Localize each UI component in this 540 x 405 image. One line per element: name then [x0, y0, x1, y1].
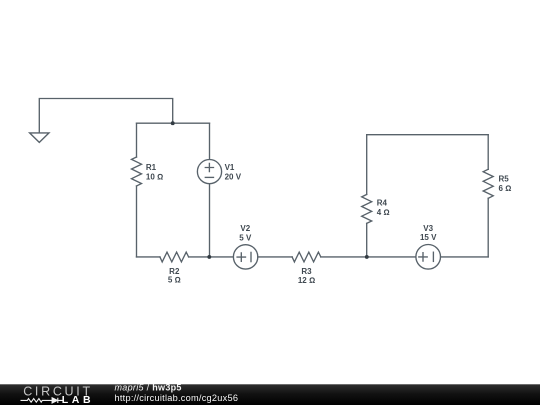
- wire bottom rail R3 to V3: [321, 256, 416, 258]
- svg-text:12 Ω: 12 Ω: [298, 276, 315, 285]
- svg-text:5 Ω: 5 Ω: [168, 276, 181, 285]
- svg-text:R3: R3: [301, 267, 312, 276]
- svg-text:V1: V1: [225, 163, 235, 172]
- wire bottom rail left segment: [137, 256, 160, 258]
- svg-text:LAB: LAB: [62, 394, 94, 405]
- svg-text:V3: V3: [423, 224, 433, 233]
- svg-text:R1: R1: [146, 163, 157, 172]
- wire top rail left loop: [137, 122, 210, 124]
- V2 bar: [250, 252, 252, 261]
- svg-text:6 Ω: 6 Ω: [499, 184, 512, 193]
- resistor R4: [362, 194, 372, 223]
- node junction top left: [171, 121, 175, 125]
- resistor R3: [292, 252, 321, 262]
- node junction R4 bottom: [365, 255, 369, 259]
- wire V1 branch upper: [209, 123, 211, 159]
- voltage source V3: [416, 244, 441, 269]
- svg-text:5 V: 5 V: [239, 233, 252, 242]
- wire top rail right loop: [367, 134, 489, 136]
- V2 plus sign: [237, 253, 245, 261]
- footer bar: [0, 384, 540, 405]
- resistor R2: [160, 252, 189, 262]
- svg-text:R5: R5: [499, 175, 510, 184]
- resistor R5: [483, 169, 493, 198]
- svg-text:4 Ω: 4 Ω: [377, 208, 390, 217]
- wire ground vertical and top horizontal to node: [39, 99, 172, 133]
- svg-text:http://circuitlab.com/cg2ux56: http://circuitlab.com/cg2ux56: [115, 393, 239, 403]
- V1 plus sign: [205, 163, 213, 171]
- voltage source V2: [233, 245, 257, 269]
- resistor R1: [132, 157, 142, 186]
- svg-text:mapri5 / hw3p5: mapri5 / hw3p5: [115, 383, 182, 393]
- svg-text:V2: V2: [240, 224, 250, 233]
- wire V1 branch lower: [209, 184, 211, 257]
- ground: [30, 133, 49, 143]
- svg-text:20 V: 20 V: [225, 172, 242, 181]
- logo resistor-diode line: [21, 398, 63, 403]
- wire bottom rail V2 to R3: [258, 256, 292, 258]
- wire bottom rail V3 to right corner: [441, 256, 489, 258]
- V3 bar: [432, 252, 434, 261]
- wire R5 branch lower: [487, 198, 489, 257]
- svg-text:15 V: 15 V: [420, 233, 437, 242]
- voltage source V1: [197, 160, 221, 184]
- node junction V1 bottom: [207, 255, 211, 259]
- V3 plus sign: [419, 253, 427, 261]
- wire R4 branch lower: [366, 223, 368, 257]
- wire bottom rail to V2: [189, 256, 234, 258]
- wire R4 branch upper: [366, 135, 368, 195]
- svg-text:R4: R4: [377, 199, 388, 208]
- svg-text:10 Ω: 10 Ω: [146, 173, 163, 182]
- wire R5 branch upper: [487, 135, 489, 170]
- wire R1 branch lower: [136, 186, 138, 257]
- V1 minus sign: [205, 176, 213, 178]
- wire R1 branch upper: [136, 123, 138, 157]
